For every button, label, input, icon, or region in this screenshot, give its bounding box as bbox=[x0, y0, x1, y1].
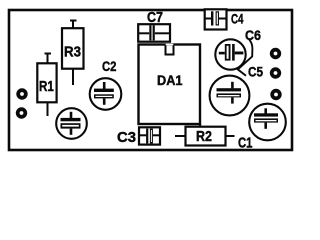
IC DA1 bbox=[139, 45, 201, 125]
svg-text:DA1: DA1 bbox=[157, 72, 183, 88]
svg-text:C3: C3 bbox=[117, 129, 136, 146]
capacitor C4 bbox=[205, 9, 227, 29]
capacitor C2 bbox=[90, 78, 122, 110]
pad (left, upper) bbox=[16, 88, 27, 99]
svg-text:C6: C6 bbox=[245, 27, 261, 43]
capacitor C3 label bbox=[117, 129, 136, 146]
wire (leader from C6 label to C5/C6 junction) bbox=[238, 40, 253, 76]
capacitor C1 label bbox=[238, 134, 253, 151]
svg-text:R1: R1 bbox=[39, 78, 54, 95]
resistor R3 bbox=[62, 20, 84, 85]
pad (right, lower) bbox=[270, 89, 281, 100]
capacitor C6 bbox=[215, 39, 245, 69]
resistor R2 bbox=[186, 127, 226, 146]
capacitor C7 bbox=[138, 24, 170, 42]
capacitor C6 label bbox=[245, 27, 261, 43]
capacitor C5 label bbox=[248, 64, 263, 80]
capacitor C5 bbox=[210, 76, 250, 116]
pad (right, middle) bbox=[270, 67, 281, 78]
svg-text:C4: C4 bbox=[231, 11, 244, 27]
capacitor (unlabeled electrolytic, bottom-left) bbox=[56, 108, 87, 139]
svg-text:R3: R3 bbox=[64, 44, 81, 61]
capacitor C2 label bbox=[102, 58, 117, 74]
wire (DA1 right edge to R2 top) bbox=[199, 124, 201, 127]
pad (right, upper) bbox=[270, 48, 281, 59]
svg-text:C1: C1 bbox=[238, 134, 253, 151]
resistor R1 bbox=[37, 53, 56, 116]
svg-text:C5: C5 bbox=[248, 64, 263, 80]
svg-text:C2: C2 bbox=[102, 58, 117, 74]
wire (C3 to R2) bbox=[175, 135, 186, 137]
capacitor C4 label bbox=[231, 11, 244, 27]
board outline bbox=[9, 10, 292, 150]
capacitor C7 label bbox=[147, 9, 163, 26]
pad (left, lower) bbox=[16, 107, 27, 118]
capacitor C3 bbox=[139, 127, 160, 144]
wire (R2 to C1) bbox=[226, 135, 235, 137]
capacitor C1 bbox=[249, 104, 286, 141]
svg-text:R2: R2 bbox=[196, 128, 212, 145]
